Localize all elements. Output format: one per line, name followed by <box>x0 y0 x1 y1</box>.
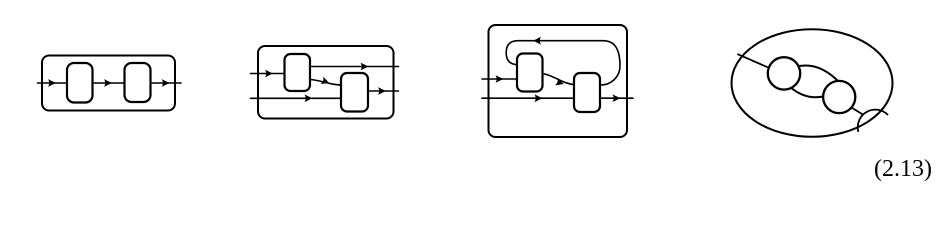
node circle 2 <box>823 81 855 113</box>
outer box <box>42 56 175 111</box>
box g <box>125 63 151 102</box>
input wire <box>482 78 522 80</box>
box g <box>574 73 600 112</box>
arrow on middle wire <box>104 79 112 87</box>
top output wire of box f <box>305 66 399 68</box>
feedback wire from box g around to box f <box>506 41 620 85</box>
arrow on feedback wire (pointing left) <box>533 37 541 45</box>
wire through diagram 1 <box>38 82 182 84</box>
arrow on f-to-g wire <box>555 78 565 88</box>
input line <box>738 54 775 70</box>
arrow on top output wire <box>361 63 369 71</box>
wire from box f to box g <box>537 73 580 85</box>
arrow on g output wire <box>378 87 386 95</box>
box f <box>517 54 543 92</box>
equation number <box>874 156 932 183</box>
box f <box>285 54 311 91</box>
upper input wire <box>251 73 291 75</box>
output wire of box g <box>362 90 399 92</box>
node circle 1 <box>768 57 800 89</box>
arrow on input wire <box>48 79 56 87</box>
lower wire between nodes <box>790 87 826 98</box>
arrow on input wire <box>496 75 504 83</box>
arrow on output wire <box>162 79 170 87</box>
box g <box>341 73 368 112</box>
wire from box f to box g <box>305 79 348 85</box>
arrow on f-to-g wire <box>321 77 331 87</box>
box f <box>67 63 93 103</box>
boundary bump arc at exit <box>858 110 888 132</box>
middle through wire <box>482 97 633 99</box>
outer box <box>489 25 628 137</box>
arrow left on middle wire <box>535 94 543 102</box>
outer box <box>258 46 394 119</box>
arrow on upper input wire <box>265 70 273 78</box>
outer oval <box>732 29 893 137</box>
arrow right on middle wire <box>613 94 621 102</box>
output line <box>849 106 863 115</box>
arrow on lower input wire <box>305 94 313 102</box>
upper wire between nodes <box>795 65 839 82</box>
lower input wire <box>251 97 349 99</box>
